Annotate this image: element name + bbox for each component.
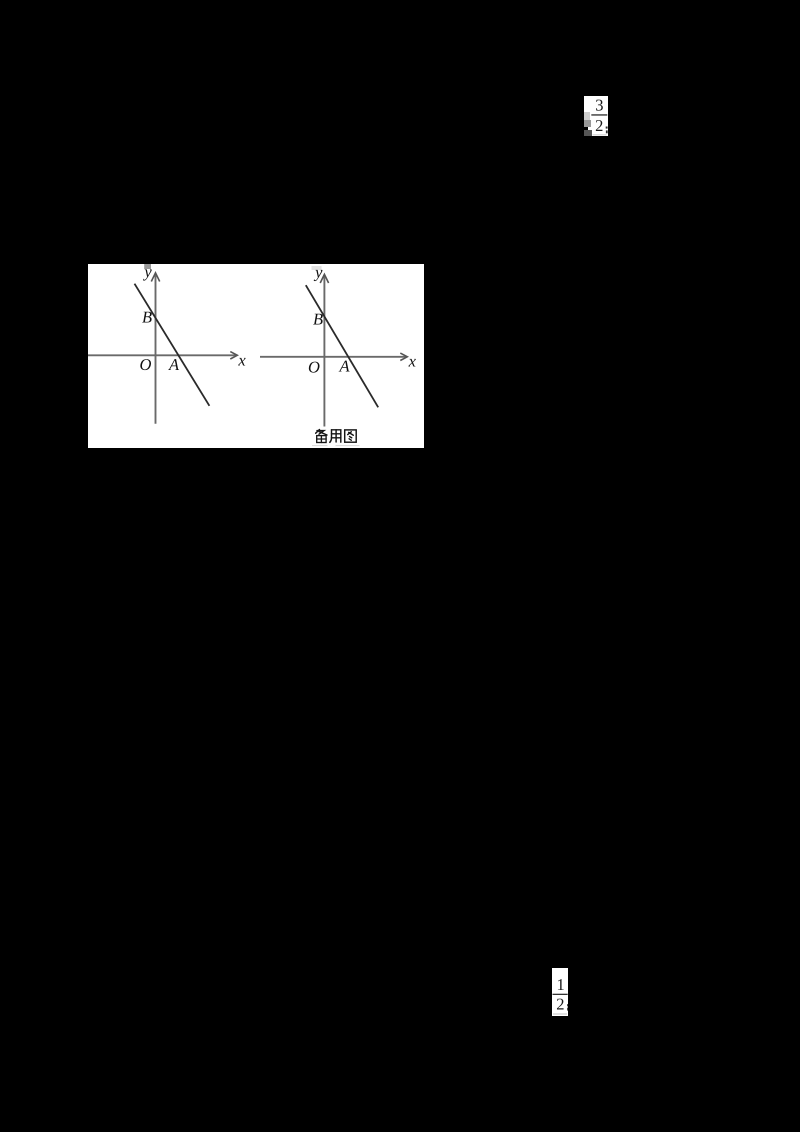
- fraction 1/2 bottom gray strip: [553, 1013, 568, 1015]
- caption 备用图 char 用: [330, 429, 341, 442]
- faint underline below caption: [312, 445, 328, 446]
- svg-text:A: A: [168, 355, 180, 374]
- graph2 y-axis arrowhead: [320, 274, 328, 283]
- caption 备用图 char 图: [345, 429, 357, 441]
- gray smudge graph2 top: [312, 266, 322, 270]
- fraction 1/2 digits and bar: [552, 968, 569, 1017]
- graph1 x-axis: [88, 354, 237, 356]
- svg-text:3: 3: [595, 96, 603, 115]
- graph1 x-axis arrowhead: [230, 351, 237, 358]
- svg-text:O: O: [140, 355, 152, 374]
- graph1 y-axis: [155, 274, 157, 424]
- white graph panel: [88, 264, 424, 448]
- gray smudge graph1 top: [144, 264, 151, 269]
- light strip below 2: [593, 134, 607, 136]
- comma artifact right of 2: [606, 127, 608, 129]
- fraction 3/2 white box: [584, 96, 608, 136]
- caption 备用图 char 备: [316, 429, 327, 442]
- graph2 y-axis: [323, 275, 325, 427]
- svg-text:2: 2: [556, 994, 564, 1013]
- svg-text:B: B: [313, 309, 323, 328]
- graph2 line through A and B: [306, 285, 378, 407]
- fraction 1/2 white box: [552, 968, 568, 1016]
- comma artifact right of 2: [566, 1004, 569, 1006]
- graph2 x-axis: [260, 355, 407, 357]
- svg-text:1: 1: [556, 975, 564, 994]
- graph1 y-axis arrowhead: [151, 272, 159, 281]
- svg-text:x: x: [237, 350, 246, 369]
- svg-text:y: y: [142, 264, 152, 281]
- svg-text:2: 2: [595, 116, 603, 135]
- svg-text:y: y: [313, 264, 323, 281]
- graph2 x-axis arrowhead: [400, 353, 407, 360]
- svg-text:B: B: [142, 307, 152, 326]
- svg-text:O: O: [308, 357, 320, 376]
- fraction 3/2 digits and bar: [584, 96, 609, 136]
- svg-text:A: A: [338, 356, 350, 375]
- svg-text:x: x: [408, 351, 417, 370]
- fraction 3/2 artifact gray blocks: [584, 112, 590, 120]
- graph1 line through A and B: [135, 283, 210, 405]
